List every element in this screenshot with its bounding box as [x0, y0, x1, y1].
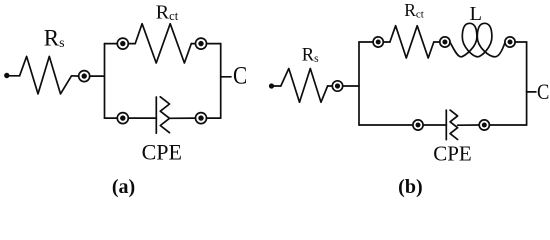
wire: top rail left segment (a) [105, 43, 118, 45]
wire [10, 75, 20, 77]
capacitor-like CPE element (b): left plate bar [445, 110, 447, 140]
wire [328, 85, 333, 87]
wire: bottom rail right segment (a) [207, 117, 221, 119]
resistor R1 Rs (a) zigzag [20, 56, 79, 94]
wire [383, 41, 390, 43]
wire [274, 85, 281, 87]
svg-text:Rs: Rs [302, 45, 319, 65]
inductor L1 coil (b) [450, 23, 505, 57]
capacitor-like CPE element (a): zigzag plate [160, 97, 169, 133]
wire [128, 117, 156, 119]
svg-text:C: C [537, 81, 549, 105]
wire [128, 43, 135, 45]
node: circled dot between Rct and L (b) [440, 37, 450, 47]
node: circled junction dot after Rs (b) [332, 81, 342, 91]
svg-text:(a): (a) [112, 176, 135, 198]
wire: output stub (b) [527, 91, 536, 93]
wire: top rail right segment (a) [207, 43, 221, 45]
node B: circled junction dot after Rs (a) [79, 71, 90, 82]
wire [90, 75, 105, 77]
node: circled dot bottom-left (b) [413, 120, 423, 130]
node A: left terminal dot of circuit (a) [4, 73, 9, 78]
capacitor-like CPE element (b): zigzag plate [450, 110, 458, 139]
wire: top rail left segment (b) [359, 41, 373, 43]
wire [434, 41, 440, 43]
node: circled dot bottom-right (a) [196, 113, 207, 124]
node: circled dot bottom-right (b) [479, 120, 489, 130]
node: circled dot top-left (a) [117, 38, 128, 49]
svg-text:Rct: Rct [404, 0, 424, 21]
resistor R3 Rs (b) zigzag [281, 69, 328, 103]
wire: left vertical of parallel box (a) [104, 44, 106, 119]
node: circled dot top-right (a) [196, 38, 207, 49]
wire: top rail right segment (b) [515, 41, 527, 43]
wire [191, 43, 195, 45]
svg-text:Rct: Rct [156, 2, 179, 24]
node: circled dot after L (b) [505, 37, 515, 47]
capacitor-like CPE element (a): left plate bar [155, 97, 157, 133]
node: circled dot bottom-left (a) [117, 113, 128, 124]
svg-text:CPE: CPE [142, 140, 182, 165]
wire: left vertical of parallel box (b) [358, 42, 360, 125]
resistor R2 Rct (a) zigzag [135, 24, 191, 63]
wire [343, 85, 359, 87]
wire: bottom rail left segment (b) [359, 124, 413, 126]
wire: bottom rail right segment (b) [489, 124, 526, 126]
svg-text:Rs: Rs [44, 25, 65, 51]
wire [170, 117, 196, 119]
wire: bottom rail left segment (a) [105, 117, 118, 119]
wire: output stub (a) [221, 76, 231, 78]
resistor R4 Rct (b) zigzag [390, 26, 434, 58]
wire: right vertical of parallel box (b) [526, 42, 528, 125]
terminal C symbol (a) [233, 62, 247, 90]
svg-text:(b): (b) [398, 176, 422, 198]
svg-text:L: L [470, 3, 483, 25]
terminal C symbol (b) [537, 81, 549, 105]
svg-text:CPE: CPE [433, 142, 472, 166]
wire: right vertical of parallel box (a) [220, 44, 222, 119]
wire [423, 124, 446, 126]
wire [458, 124, 480, 126]
node: left terminal dot of circuit (b) [269, 83, 274, 88]
svg-text:C: C [233, 62, 247, 90]
node: circled dot before Rct (b) [373, 37, 383, 47]
